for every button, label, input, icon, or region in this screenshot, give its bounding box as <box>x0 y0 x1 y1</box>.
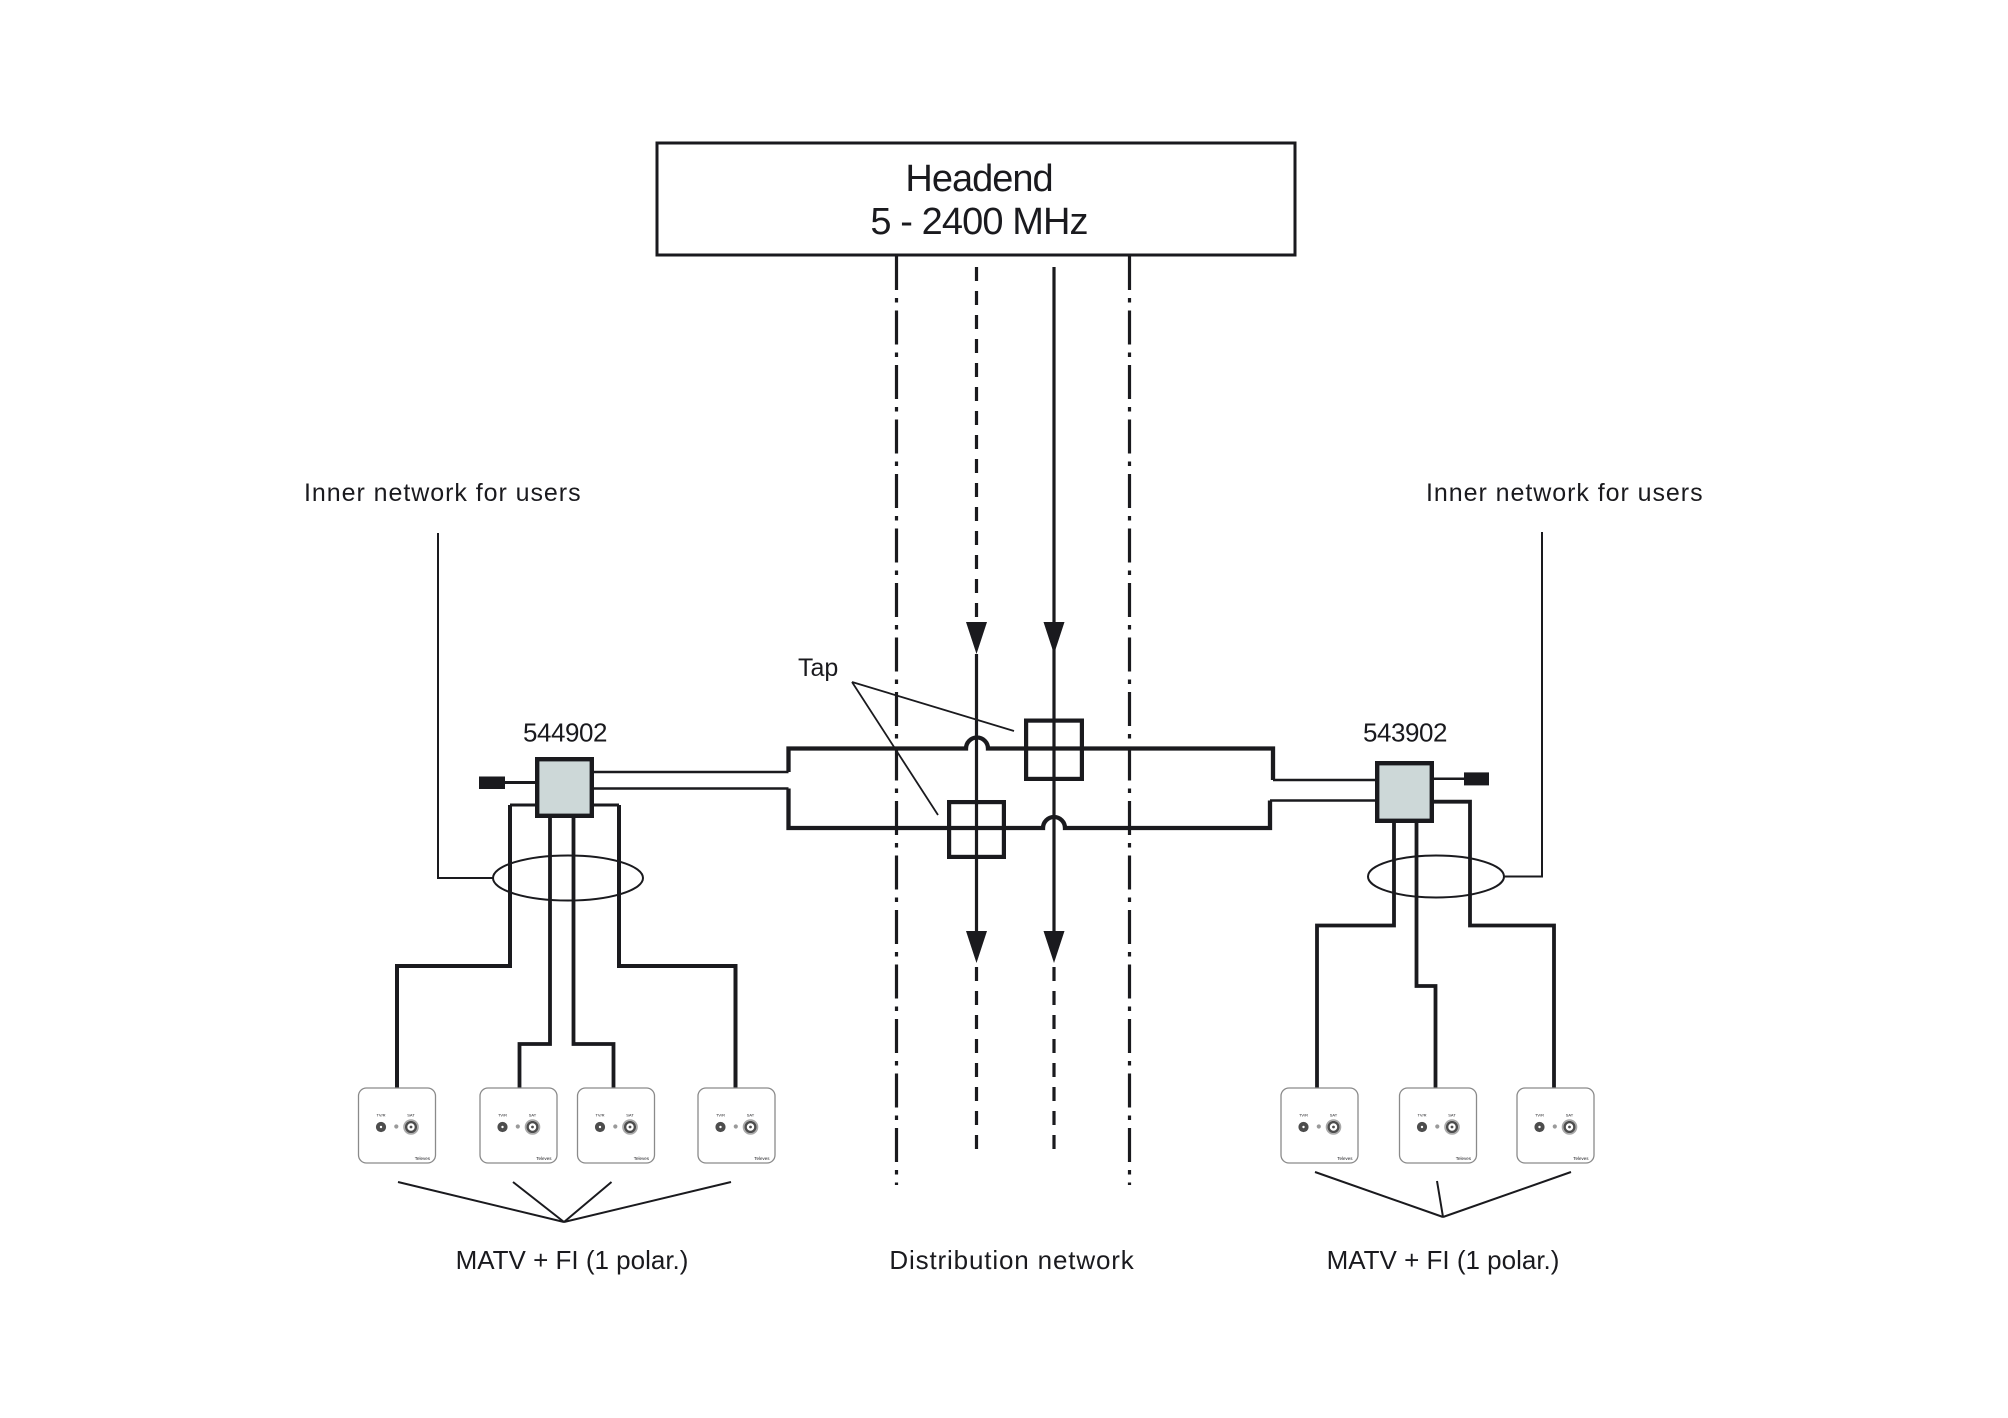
svg-text:Headend: Headend <box>905 158 1052 200</box>
svg-text:544902: 544902 <box>523 718 607 748</box>
svg-text:Tap: Tap <box>798 654 838 682</box>
svg-text:MATV + FI (1 polar.): MATV + FI (1 polar.) <box>456 1245 689 1275</box>
svg-text:Inner network for users: Inner network for users <box>1426 479 1704 507</box>
svg-text:MATV + FI (1 polar.): MATV + FI (1 polar.) <box>1327 1245 1560 1275</box>
svg-text:5 - 2400 MHz: 5 - 2400 MHz <box>870 201 1087 243</box>
svg-text:Distribution network: Distribution network <box>889 1245 1134 1275</box>
svg-text:543902: 543902 <box>1363 718 1447 748</box>
svg-text:Inner network for users: Inner network for users <box>304 479 582 507</box>
